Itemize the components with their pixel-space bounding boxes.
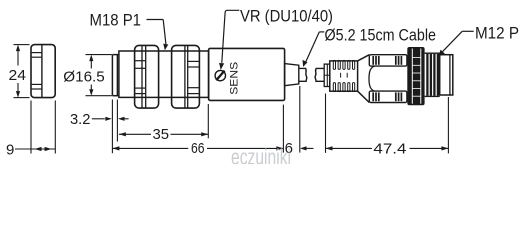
leader cable arrowhead: [303, 60, 308, 67]
left view hex band lines: [32, 53, 42, 89]
left view inner vertical line: [41, 45, 43, 97]
svg-text:9: 9: [6, 141, 14, 158]
dimension D16.5 line: [90, 57, 92, 94]
connector bushing: [324, 64, 330, 86]
svg-text:VR (DU10/40): VR (DU10/40): [240, 6, 333, 25]
leader M12: [442, 31, 474, 52]
dimension 3.2: [92, 118, 129, 120]
svg-text:Ø16.5: Ø16.5: [63, 69, 105, 86]
boot inner U: [369, 66, 375, 91]
grip slots bottom: [333, 83, 354, 92]
leader M18 arrowhead: [163, 44, 168, 51]
svg-text:47.4: 47.4: [373, 140, 406, 157]
M12 thread crests: [427, 54, 438, 96]
svg-text:24: 24: [9, 67, 27, 84]
dimension 9 arrows: [35, 147, 52, 151]
bushing inner line: [326, 64, 328, 86]
cable stub at connector with break: [315, 68, 324, 81]
svg-text:3.2: 3.2: [70, 111, 91, 128]
boot bottom prong ribs: [373, 92, 401, 101]
dimension 24 arrows: [16, 45, 20, 98]
connector end face line: [449, 55, 451, 95]
leader cable: [306, 32, 324, 62]
coupling nut white lines: [412, 49, 421, 104]
dimension 24 line: [17, 47, 19, 95]
svg-text:M18 P1: M18 P1: [90, 11, 142, 30]
sensitivity screw: [215, 70, 225, 80]
dimension 24 extension lines: [14, 45, 30, 98]
svg-text:M12 P: M12 P: [475, 24, 519, 43]
svg-text:eczujniki: eczujniki: [231, 144, 291, 164]
cable stub at gland with break: [299, 68, 307, 81]
connector grip: [330, 61, 358, 91]
grip middle ticks: [341, 73, 348, 78]
bushing mid tick: [324, 74, 330, 76]
screw slot: [216, 71, 224, 81]
extension lines bottom: [112, 86, 448, 153]
boot bottom prong: [369, 91, 407, 102]
boot top prong ribs: [373, 56, 401, 65]
dimension D16.5 arrows: [89, 55, 93, 96]
left end view outline: [31, 45, 55, 98]
leader VR: [222, 10, 240, 63]
boot top prong: [369, 55, 407, 66]
connector end barrel: [440, 55, 453, 95]
boot flare bottom: [358, 91, 370, 102]
leader M12 arrowhead: [438, 50, 445, 57]
grip slots top: [333, 60, 354, 69]
hex nut 1: [135, 45, 159, 108]
M12 thread section: [425, 53, 440, 96]
dimension 35: [119, 133, 208, 135]
dimension 9 extension lines: [31, 101, 55, 154]
boot flare top: [358, 55, 370, 61]
hex nut 2: [172, 45, 200, 108]
thread barrel: [119, 51, 209, 97]
svg-text:SENS: SENS: [229, 62, 241, 95]
svg-text:66: 66: [191, 140, 205, 157]
sensor tip face: [112, 55, 119, 96]
svg-text:Ø5.2 15cm Cable: Ø5.2 15cm Cable: [325, 25, 437, 44]
svg-text:35: 35: [153, 126, 170, 143]
leader VR arrowhead: [219, 63, 224, 70]
dimension 66: [112, 147, 283, 149]
main body: [209, 48, 285, 100]
cable gland: [285, 64, 299, 86]
dimension 47.4: [326, 147, 449, 149]
coupling nut (knurled): [407, 47, 424, 105]
leader M18: [147, 20, 166, 45]
dimension D16.5 extension lines: [86, 55, 112, 96]
dimension 9 line: [15, 148, 55, 150]
